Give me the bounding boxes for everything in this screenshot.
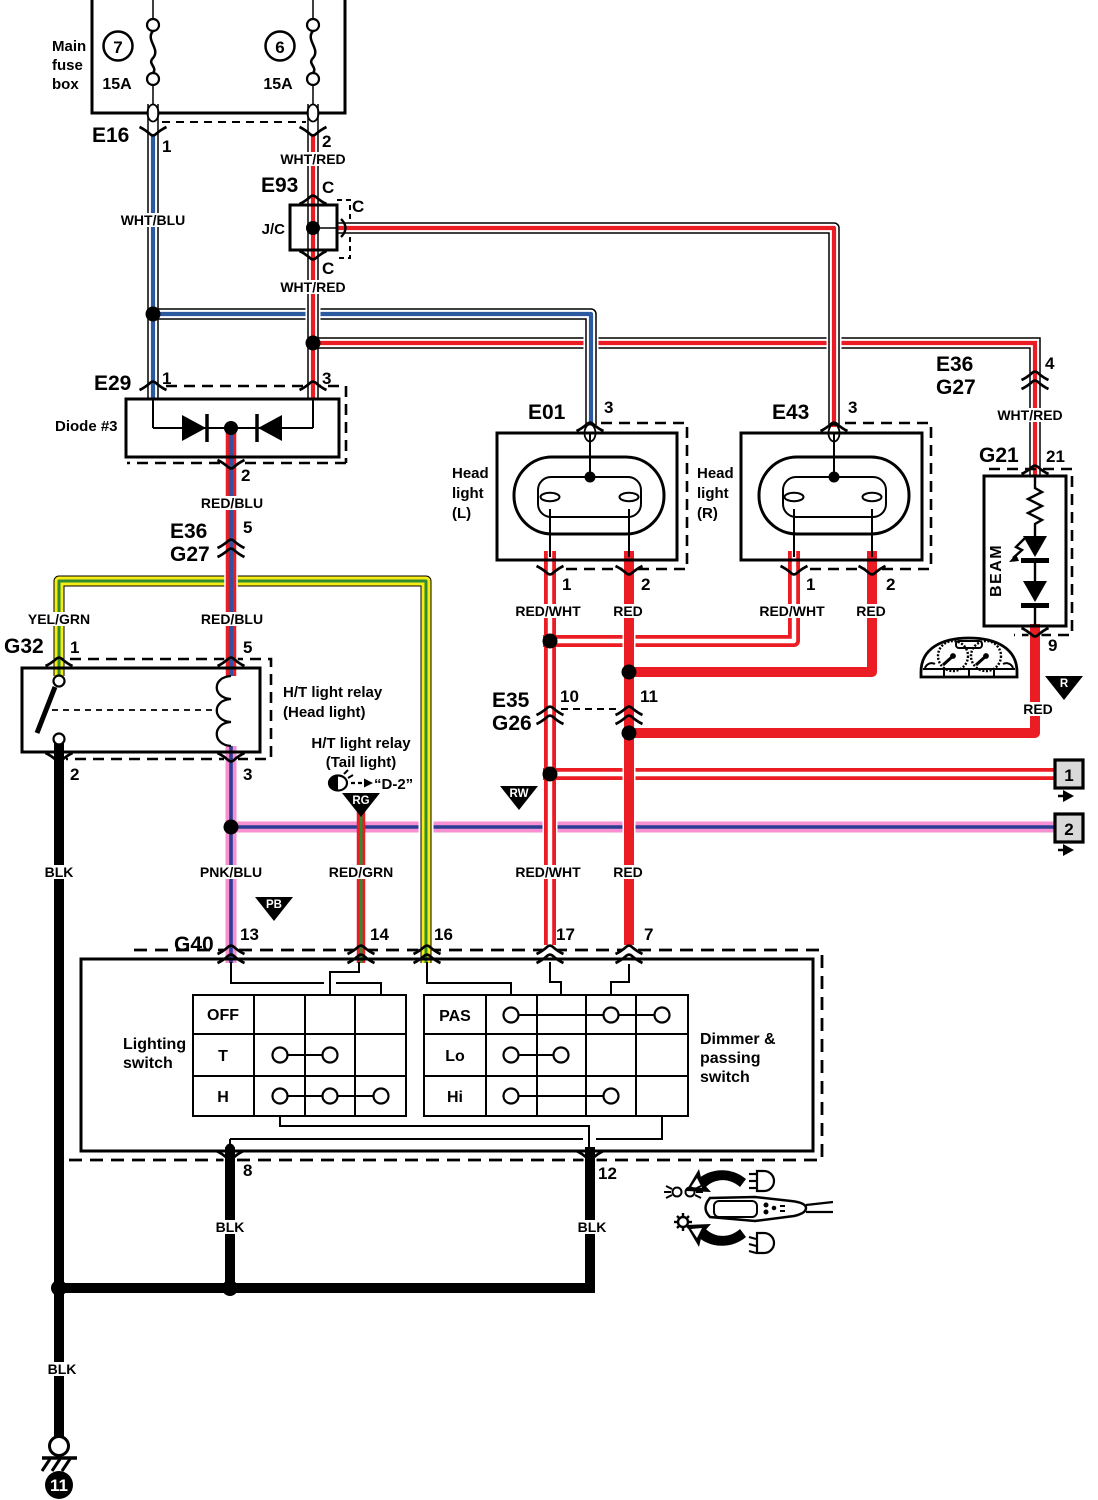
wire BLK ground drop xyxy=(54,1285,64,1438)
label RED/BLU lower xyxy=(200,612,264,626)
svg-text:2: 2 xyxy=(322,132,331,151)
wire WHT/RED fuse 6 to E29 pin3 through J/C xyxy=(306,104,321,399)
svg-text:PAS: PAS xyxy=(439,1008,471,1025)
svg-text:1: 1 xyxy=(70,638,79,657)
svg-text:H/T light relay: H/T light relay xyxy=(311,735,411,752)
junction dot RED at y733 xyxy=(622,726,637,741)
junction dot WHT/BLU branch xyxy=(146,307,161,322)
headlight L dashed housing xyxy=(556,423,687,569)
svg-text:fuse: fuse xyxy=(52,57,83,74)
svg-text:E16: E16 xyxy=(92,124,129,147)
lighting switch table xyxy=(193,995,406,1116)
svg-text:T: T xyxy=(218,1048,228,1065)
label WHT/BLU xyxy=(120,213,186,227)
svg-text:BLK: BLK xyxy=(45,864,74,880)
svg-text:E36: E36 xyxy=(170,520,207,543)
triangle flag R xyxy=(1045,676,1083,700)
svg-text:“D-2”: “D-2” xyxy=(374,776,413,793)
G21 lightning arrow xyxy=(1009,538,1025,562)
wire YEL/GRN relay G32 pin1 to G40 pin16 xyxy=(59,581,426,963)
relay G32 dashed housing xyxy=(66,659,271,759)
svg-text:PNK/BLU: PNK/BLU xyxy=(200,864,262,880)
labels RED/WHT RED lower xyxy=(513,865,583,879)
stalk icon: upper curved arrow xyxy=(686,1169,746,1192)
svg-text:BLK: BLK xyxy=(48,1361,77,1377)
svg-text:14: 14 xyxy=(370,925,389,944)
svg-text:E43: E43 xyxy=(772,401,809,424)
svg-text:WHT/RED: WHT/RED xyxy=(280,151,345,167)
svg-text:2: 2 xyxy=(241,466,250,485)
junction dot RED at y672 xyxy=(622,665,637,680)
svg-text:5: 5 xyxy=(243,518,252,537)
headlight R box xyxy=(741,433,922,560)
fuse 7 symbol xyxy=(147,0,159,135)
svg-text:OFF: OFF xyxy=(207,1007,239,1024)
connector E36/G27 pin4 terminal xyxy=(1022,372,1049,380)
label YEL/GRN xyxy=(26,612,92,626)
G21 LED diode 2 xyxy=(1021,581,1049,626)
svg-text:G21: G21 xyxy=(979,444,1019,467)
svg-text:8: 8 xyxy=(243,1161,252,1180)
wire RED/BLU diode output to relay coil xyxy=(224,426,238,676)
labels BLK bottom xyxy=(215,1220,245,1234)
G21 dashed housing xyxy=(989,469,1072,635)
connector E29 dashed housing xyxy=(127,386,346,463)
wire RED headlight L pin2 to G40 pin7 xyxy=(623,551,636,959)
label WHT/RED right xyxy=(996,408,1064,422)
svg-text:4: 4 xyxy=(1045,354,1055,373)
dimmer switch table xyxy=(424,995,688,1116)
svg-text:1: 1 xyxy=(806,575,815,594)
junction dot diode output xyxy=(224,421,238,435)
headlight L box xyxy=(497,433,677,560)
connector E29 terminals xyxy=(140,382,167,390)
svg-text:RED/WHT: RED/WHT xyxy=(515,864,581,880)
G40 dashed housing xyxy=(57,950,822,1160)
svg-text:Lo: Lo xyxy=(445,1048,465,1065)
svg-text:1: 1 xyxy=(162,369,171,388)
headlight R bulb xyxy=(759,433,909,557)
svg-text:11: 11 xyxy=(50,1476,68,1495)
svg-text:E93: E93 xyxy=(261,174,298,197)
svg-text:13: 13 xyxy=(240,925,259,944)
svg-text:16: 16 xyxy=(434,925,453,944)
junction dot headlight L bulb xyxy=(585,472,596,483)
diode 1 xyxy=(182,414,207,442)
connector G40 pins 8 and 12 terminals xyxy=(217,1151,244,1159)
svg-text:12: 12 xyxy=(598,1164,617,1183)
output box 1 xyxy=(1055,760,1083,802)
output box 2 xyxy=(1055,814,1083,856)
wire WHT/BLU fuse 7 to E29 pin1 xyxy=(147,104,159,399)
wire RED G21 pin9 to junction xyxy=(629,624,1035,733)
connector E16 terminals xyxy=(140,127,167,135)
junction dot pin8 at G40 edge xyxy=(226,1144,235,1153)
ground symbol xyxy=(42,1437,77,1472)
stalk icon: lower curved arrow xyxy=(686,1224,746,1247)
junction dot RED/WHT at y774 xyxy=(543,767,558,782)
svg-text:RED: RED xyxy=(613,603,643,619)
connector G32 terminals xyxy=(46,658,73,666)
connector E16 dashed link xyxy=(162,121,306,123)
svg-text:BEAM: BEAM xyxy=(988,544,1005,597)
svg-text:(R): (R) xyxy=(697,505,718,522)
svg-text:BLK: BLK xyxy=(216,1219,245,1235)
stalk icon: high beam symbol xyxy=(749,1171,774,1191)
junction dot J/C E93 xyxy=(306,221,320,235)
svg-text:G27: G27 xyxy=(936,376,976,399)
svg-text:G27: G27 xyxy=(170,543,210,566)
connector E35/G26 dashed link xyxy=(561,708,619,710)
svg-text:2: 2 xyxy=(70,765,79,784)
relay switch contact xyxy=(37,676,65,745)
label BLK relay xyxy=(44,865,74,879)
label WHT/RED lower xyxy=(279,280,347,294)
triangle flag RG xyxy=(342,793,380,817)
switch assembly G40 box xyxy=(81,959,813,1151)
svg-text:light: light xyxy=(697,485,729,502)
junction dot RED/WHT at y641 xyxy=(543,634,558,649)
svg-text:switch: switch xyxy=(123,1055,173,1072)
wire BLK relay pin2 down to ground bus xyxy=(53,742,66,1288)
svg-text:3: 3 xyxy=(604,398,613,417)
lighting switch contacts xyxy=(273,1048,389,1104)
instrument cluster icon xyxy=(921,638,1017,677)
labels RED/WHT RED row xyxy=(513,604,583,618)
diode 2 xyxy=(257,414,282,442)
svg-text:10: 10 xyxy=(560,687,579,706)
wire PNK/BLU relay pin3 to G40 pin13 xyxy=(224,746,238,963)
svg-text:E36: E36 xyxy=(936,353,973,376)
svg-text:Lighting: Lighting xyxy=(123,1036,186,1053)
dimmer switch contacts xyxy=(504,1008,670,1104)
svg-text:RED/BLU: RED/BLU xyxy=(201,611,263,627)
relay coil xyxy=(217,676,231,746)
ground number 11 xyxy=(45,1471,73,1499)
svg-text:J/C: J/C xyxy=(262,221,286,238)
svg-text:E29: E29 xyxy=(94,372,131,395)
svg-text:Dimmer &: Dimmer & xyxy=(700,1031,776,1048)
label RED/BLU upper xyxy=(200,496,264,510)
svg-text:box: box xyxy=(52,76,79,93)
svg-text:G32: G32 xyxy=(4,635,44,658)
wire WHT/RED from J/C E93 to headlight R pin3 xyxy=(338,228,834,427)
svg-text:E35: E35 xyxy=(492,689,530,712)
svg-text:Diode #3: Diode #3 xyxy=(55,418,118,435)
svg-text:3: 3 xyxy=(243,765,252,784)
svg-text:BLK: BLK xyxy=(578,1219,607,1235)
svg-text:RED: RED xyxy=(613,864,643,880)
svg-text:RED/WHT: RED/WHT xyxy=(515,603,581,619)
svg-text:(L): (L) xyxy=(452,505,471,522)
junction dot ground bus left xyxy=(51,1280,67,1296)
fuse 7 circled label xyxy=(104,32,133,61)
svg-text:C: C xyxy=(322,178,334,197)
fuse 6 symbol xyxy=(307,0,319,135)
wire RED/WHT horizontal (headlight L pin1 to box 1 output) xyxy=(543,768,1057,780)
svg-text:Head: Head xyxy=(452,465,489,482)
wire RED/GRN from RG to G40 pin14 xyxy=(355,806,367,963)
connector E36/G27 pin5 terminal xyxy=(218,540,245,548)
junction dot headlight R bulb xyxy=(829,472,840,483)
headlight R dashed housing xyxy=(804,423,931,569)
svg-text:(Head light): (Head light) xyxy=(283,704,366,721)
svg-text:15A: 15A xyxy=(102,76,132,93)
eye icon and D-2 reference xyxy=(329,770,413,793)
svg-text:H/T light relay: H/T light relay xyxy=(283,684,383,701)
svg-text:G26: G26 xyxy=(492,712,532,735)
svg-text:Main: Main xyxy=(52,38,86,55)
svg-text:1: 1 xyxy=(162,137,171,156)
svg-text:WHT/RED: WHT/RED xyxy=(280,279,345,295)
connector bushings xyxy=(148,105,159,122)
svg-text:switch: switch xyxy=(700,1069,750,1086)
svg-text:E01: E01 xyxy=(528,401,566,424)
svg-text:2: 2 xyxy=(886,575,895,594)
connector G21 terminals xyxy=(1022,466,1049,474)
svg-text:R: R xyxy=(1060,678,1069,690)
connector E01 terminals xyxy=(577,423,604,431)
svg-text:Hi: Hi xyxy=(447,1089,463,1106)
svg-text:9: 9 xyxy=(1048,636,1057,655)
wire WHT/BLU junction to headlight L pin3 xyxy=(153,314,591,425)
svg-text:17: 17 xyxy=(556,925,575,944)
svg-text:RW: RW xyxy=(510,788,529,800)
label PNK/BLU xyxy=(198,865,264,879)
svg-text:RG: RG xyxy=(352,795,369,807)
connector E93 terminals xyxy=(300,196,327,204)
svg-text:RED: RED xyxy=(856,603,886,619)
svg-text:C: C xyxy=(352,197,364,216)
svg-text:PB: PB xyxy=(266,899,282,911)
svg-text:RED: RED xyxy=(1023,701,1053,717)
svg-text:RED/GRN: RED/GRN xyxy=(329,864,394,880)
connector G40 terminals xyxy=(218,946,245,954)
headlight L bulb xyxy=(514,433,664,557)
junction connector E93 J/C box xyxy=(290,200,350,258)
svg-text:7: 7 xyxy=(644,925,653,944)
svg-text:WHT/RED: WHT/RED xyxy=(997,407,1062,423)
stalk icon: position lamps symbol xyxy=(664,1186,703,1198)
relay G32 box xyxy=(22,668,260,752)
wire RED/WHT headlight R pin1 elbow xyxy=(543,551,794,641)
svg-text:C: C xyxy=(322,259,334,278)
fuse 6 circled label xyxy=(266,32,295,61)
label WHT/RED upper xyxy=(279,152,347,166)
wire RED/WHT headlight L pin1 to G40 pin17 xyxy=(543,551,558,959)
svg-text:(Tail light): (Tail light) xyxy=(326,754,397,771)
svg-text:3: 3 xyxy=(322,369,331,388)
main fuse box xyxy=(92,0,345,113)
svg-text:G40: G40 xyxy=(174,933,214,956)
svg-text:2: 2 xyxy=(641,575,650,594)
svg-text:RED/BLU: RED/BLU xyxy=(201,495,263,511)
junction dot PNK/BLU branch xyxy=(224,820,239,835)
wire RED headlight R pin2 elbow xyxy=(629,551,872,672)
triangle flag RW xyxy=(500,786,538,810)
svg-text:6: 6 xyxy=(275,38,284,57)
stalk icon: lever body xyxy=(706,1197,834,1221)
wire BLK ground bus and G40 pin12 xyxy=(59,1147,590,1288)
svg-text:7: 7 xyxy=(113,38,122,57)
label RED right xyxy=(1021,702,1055,716)
svg-text:H: H xyxy=(217,1089,229,1106)
connector E35/G26 terminals xyxy=(537,707,564,715)
svg-text:passing: passing xyxy=(700,1050,760,1067)
svg-text:3: 3 xyxy=(848,398,857,417)
wire WHT/RED branch from E16 pin2 junction to E36/G27 pin4 and G21 xyxy=(313,343,1035,476)
wire BLK G40 pin8 to ground bus xyxy=(224,1147,237,1288)
relay actuation dashed line xyxy=(52,709,218,711)
wire PNK/BLU horizontal bus to box 2 output xyxy=(231,822,1057,833)
svg-text:1: 1 xyxy=(1064,766,1073,785)
G21 LED diode 1 xyxy=(1021,536,1049,581)
junction dot ground bus pin8 xyxy=(222,1280,238,1296)
label RED/GRN xyxy=(327,865,395,879)
svg-text:1: 1 xyxy=(562,575,571,594)
beam indicator G21 box xyxy=(984,476,1066,626)
triangle flag PB xyxy=(255,897,293,921)
svg-text:5: 5 xyxy=(243,638,252,657)
svg-text:RED/WHT: RED/WHT xyxy=(759,603,825,619)
svg-text:11: 11 xyxy=(640,687,658,706)
svg-text:2: 2 xyxy=(1064,820,1073,839)
svg-text:Head: Head xyxy=(697,465,734,482)
stalk icon: low beam symbol xyxy=(749,1233,774,1253)
G40 internal wiring xyxy=(230,962,662,1147)
junction dot WHT/RED branch xyxy=(306,336,321,351)
connector E43 terminals xyxy=(821,423,848,431)
G21 resistor xyxy=(1028,476,1042,536)
stalk icon: sun symbol xyxy=(674,1213,692,1231)
svg-text:YEL/GRN: YEL/GRN xyxy=(28,611,90,627)
svg-text:21: 21 xyxy=(1046,447,1065,466)
svg-text:WHT/BLU: WHT/BLU xyxy=(121,212,186,228)
diode box E29 xyxy=(126,399,339,457)
svg-text:light: light xyxy=(452,485,484,502)
svg-text:15A: 15A xyxy=(263,76,293,93)
